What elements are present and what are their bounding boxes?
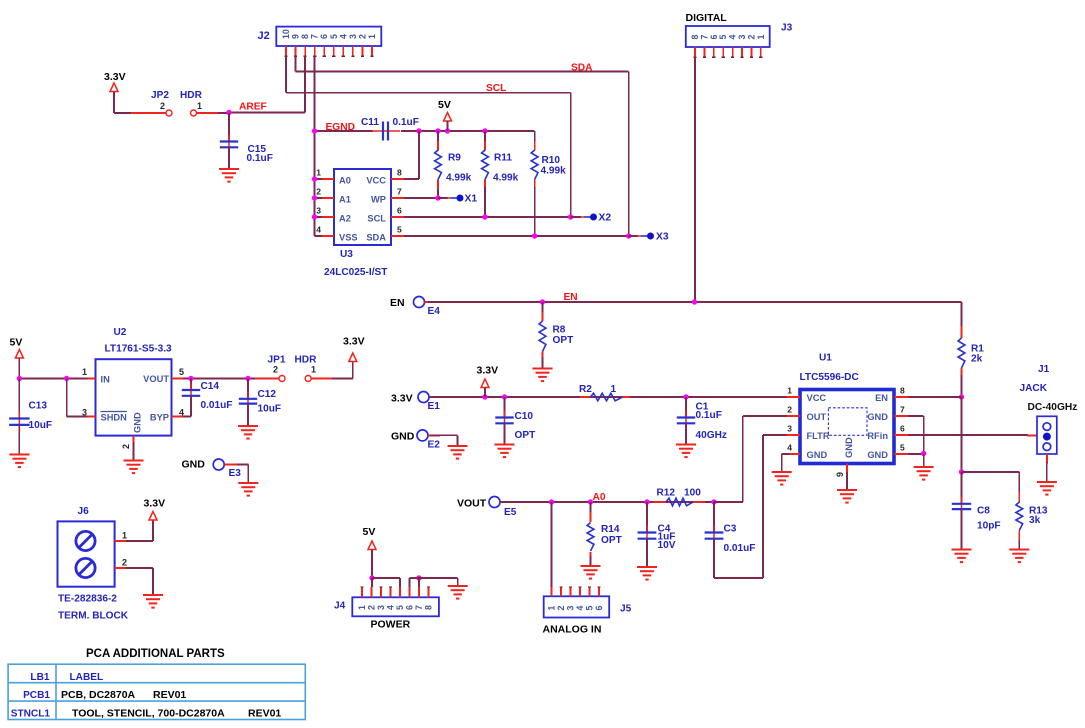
- svg-text:4: 4: [787, 443, 792, 453]
- svg-text:VCC: VCC: [807, 393, 827, 403]
- svg-text:10uF: 10uF: [29, 420, 53, 431]
- svg-text:10uF: 10uF: [258, 404, 282, 415]
- svg-text:U1: U1: [819, 353, 832, 364]
- svg-text:VOUT: VOUT: [457, 498, 487, 510]
- svg-text:8: 8: [424, 605, 434, 610]
- svg-text:C12: C12: [258, 389, 277, 400]
- svg-text:U2: U2: [114, 327, 127, 338]
- svg-text:A1: A1: [339, 195, 351, 205]
- svg-text:PCA ADDITIONAL PARTS: PCA ADDITIONAL PARTS: [86, 648, 225, 660]
- svg-text:BYP: BYP: [150, 413, 169, 423]
- svg-text:4: 4: [338, 34, 348, 39]
- svg-text:RFin: RFin: [867, 431, 888, 441]
- svg-text:3.3V: 3.3V: [144, 498, 166, 510]
- svg-text:J2: J2: [258, 30, 270, 42]
- svg-text:WP: WP: [371, 195, 386, 205]
- svg-text:DC-40GHz: DC-40GHz: [1028, 402, 1078, 413]
- svg-text:R8: R8: [553, 325, 566, 336]
- svg-text:J4: J4: [334, 601, 346, 612]
- svg-text:SDA: SDA: [571, 63, 593, 74]
- svg-text:TOOL, STENCIL, 700-DC2870A: TOOL, STENCIL, 700-DC2870A: [72, 708, 225, 720]
- svg-text:4.99k: 4.99k: [446, 173, 472, 184]
- svg-text:C11: C11: [361, 117, 379, 128]
- svg-text:5V: 5V: [10, 337, 23, 349]
- svg-text:E3: E3: [229, 468, 242, 479]
- svg-text:J3: J3: [781, 23, 793, 34]
- svg-text:6: 6: [405, 605, 415, 610]
- svg-text:JACK: JACK: [1020, 383, 1048, 394]
- svg-text:C14: C14: [201, 381, 220, 392]
- svg-text:1: 1: [357, 605, 367, 610]
- svg-text:E4: E4: [428, 306, 441, 317]
- svg-text:A0: A0: [339, 176, 351, 186]
- svg-text:C8: C8: [977, 506, 990, 517]
- svg-text:7: 7: [414, 605, 424, 610]
- svg-text:2: 2: [122, 558, 127, 568]
- svg-text:U3: U3: [340, 249, 353, 260]
- svg-text:6: 6: [319, 34, 329, 39]
- svg-text:0.01uF: 0.01uF: [724, 543, 756, 554]
- svg-text:3k: 3k: [1029, 515, 1041, 526]
- svg-text:5: 5: [397, 225, 402, 235]
- svg-text:OUT: OUT: [807, 412, 827, 422]
- svg-text:JP2: JP2: [151, 90, 169, 101]
- svg-text:2: 2: [121, 444, 131, 449]
- svg-text:1: 1: [82, 367, 87, 377]
- svg-text:LT1761-S5-3.3: LT1761-S5-3.3: [105, 344, 173, 355]
- svg-text:R11: R11: [494, 153, 512, 164]
- svg-text:R14: R14: [601, 524, 620, 535]
- svg-text:GND: GND: [867, 450, 888, 460]
- svg-text:7: 7: [397, 187, 402, 197]
- svg-text:IN: IN: [101, 375, 111, 385]
- svg-text:3: 3: [316, 206, 321, 216]
- svg-text:DIGITAL: DIGITAL: [686, 12, 728, 24]
- svg-text:4: 4: [575, 606, 585, 611]
- svg-text:TE-282836-2: TE-282836-2: [58, 594, 117, 605]
- svg-text:EN: EN: [875, 393, 888, 403]
- svg-text:OPT: OPT: [601, 535, 623, 546]
- svg-text:6: 6: [900, 424, 905, 434]
- svg-text:C13: C13: [29, 401, 48, 412]
- svg-text:2: 2: [787, 405, 792, 415]
- svg-text:J1: J1: [1038, 364, 1050, 375]
- svg-text:SDA: SDA: [366, 233, 386, 243]
- svg-text:4.99k: 4.99k: [493, 173, 519, 184]
- svg-text:100: 100: [684, 488, 701, 499]
- svg-text:GND: GND: [182, 459, 206, 471]
- svg-text:J6: J6: [78, 506, 90, 517]
- svg-text:8: 8: [300, 34, 310, 39]
- svg-text:6: 6: [397, 206, 402, 216]
- svg-text:REV01: REV01: [153, 689, 186, 701]
- svg-text:40GHz: 40GHz: [696, 430, 727, 441]
- svg-text:X3: X3: [656, 232, 669, 243]
- svg-text:VCC: VCC: [366, 176, 386, 186]
- svg-text:4.99k: 4.99k: [541, 166, 567, 177]
- svg-text:SCL: SCL: [367, 214, 386, 224]
- svg-text:3: 3: [376, 605, 386, 610]
- svg-text:C10: C10: [515, 411, 534, 422]
- svg-text:VSS: VSS: [339, 233, 358, 243]
- svg-text:E5: E5: [504, 507, 517, 518]
- svg-text:GND: GND: [807, 450, 828, 460]
- svg-text:3.3V: 3.3V: [391, 393, 413, 405]
- svg-text:A0: A0: [593, 492, 606, 503]
- svg-text:R12: R12: [657, 488, 676, 499]
- svg-text:10pF: 10pF: [977, 521, 1001, 532]
- svg-text:10: 10: [281, 29, 291, 39]
- svg-text:LABEL: LABEL: [70, 672, 104, 683]
- svg-text:R2: R2: [579, 384, 592, 395]
- svg-text:OPT: OPT: [553, 335, 575, 346]
- svg-text:3: 3: [566, 606, 576, 611]
- svg-text:10V: 10V: [658, 540, 676, 551]
- svg-text:R9: R9: [448, 153, 461, 164]
- svg-text:9: 9: [835, 472, 845, 477]
- svg-text:8: 8: [397, 168, 402, 178]
- svg-text:FLTR: FLTR: [807, 431, 830, 441]
- svg-text:9: 9: [291, 34, 301, 39]
- svg-text:1: 1: [367, 34, 377, 39]
- svg-text:R10: R10: [542, 155, 561, 166]
- svg-text:3.3V: 3.3V: [104, 71, 126, 83]
- svg-text:3: 3: [787, 424, 792, 434]
- svg-text:6: 6: [594, 606, 604, 611]
- svg-text:C3: C3: [724, 524, 737, 535]
- svg-text:J5: J5: [620, 604, 632, 615]
- svg-text:GND: GND: [133, 412, 143, 433]
- svg-text:STNCL1: STNCL1: [11, 709, 51, 720]
- svg-text:SHDN: SHDN: [101, 413, 128, 423]
- svg-text:X2: X2: [599, 213, 612, 224]
- svg-text:5V: 5V: [438, 99, 451, 111]
- svg-text:1: 1: [311, 365, 316, 375]
- svg-text:2: 2: [273, 365, 278, 375]
- svg-text:VOUT: VOUT: [143, 374, 169, 384]
- svg-text:ANALOG IN: ANALOG IN: [543, 624, 602, 636]
- svg-text:AREF: AREF: [239, 102, 267, 113]
- svg-text:E2: E2: [428, 440, 441, 451]
- svg-text:4: 4: [316, 225, 321, 235]
- svg-text:EN: EN: [390, 297, 405, 309]
- svg-text:SCL: SCL: [486, 83, 506, 94]
- svg-text:A2: A2: [339, 214, 351, 224]
- svg-text:EN: EN: [564, 292, 578, 303]
- svg-text:2: 2: [316, 187, 321, 197]
- svg-text:PCB, DC2870A: PCB, DC2870A: [61, 689, 136, 701]
- svg-text:7: 7: [310, 34, 320, 39]
- svg-text:GND: GND: [391, 431, 415, 443]
- svg-text:GND: GND: [844, 437, 854, 458]
- svg-text:0.1uF: 0.1uF: [393, 117, 419, 128]
- svg-text:1: 1: [547, 606, 557, 611]
- svg-text:1: 1: [756, 35, 766, 40]
- svg-text:2: 2: [160, 101, 165, 111]
- svg-text:5: 5: [179, 367, 184, 377]
- svg-text:LTC5596-DC: LTC5596-DC: [800, 372, 860, 383]
- svg-text:LB1: LB1: [30, 672, 49, 683]
- svg-text:3.3V: 3.3V: [477, 365, 499, 377]
- svg-text:5: 5: [329, 34, 339, 39]
- svg-text:1: 1: [197, 101, 202, 111]
- svg-text:24LC025-I/ST: 24LC025-I/ST: [324, 267, 388, 278]
- svg-text:4: 4: [386, 605, 396, 610]
- svg-text:3.3V: 3.3V: [343, 336, 365, 348]
- svg-text:TERM. BLOCK: TERM. BLOCK: [58, 611, 129, 622]
- svg-text:0.1uF: 0.1uF: [696, 410, 722, 421]
- svg-text:REV01: REV01: [248, 708, 281, 720]
- svg-text:1: 1: [122, 531, 127, 541]
- svg-text:3: 3: [348, 34, 358, 39]
- svg-text:E1: E1: [428, 401, 441, 412]
- svg-text:2: 2: [556, 606, 566, 611]
- svg-text:5V: 5V: [363, 526, 376, 538]
- svg-text:HDR: HDR: [180, 90, 203, 101]
- svg-text:7: 7: [900, 405, 905, 415]
- svg-text:5: 5: [585, 606, 595, 611]
- svg-text:5: 5: [395, 605, 405, 610]
- svg-text:PCB1: PCB1: [23, 690, 50, 701]
- svg-text:1: 1: [787, 386, 792, 396]
- svg-text:0.01uF: 0.01uF: [201, 400, 233, 411]
- svg-text:2: 2: [367, 605, 377, 610]
- svg-text:8: 8: [900, 386, 905, 396]
- svg-text:POWER: POWER: [371, 619, 411, 631]
- svg-text:X1: X1: [465, 194, 478, 205]
- svg-text:2: 2: [357, 34, 367, 39]
- svg-text:5: 5: [900, 443, 905, 453]
- svg-text:2k: 2k: [971, 354, 983, 365]
- svg-text:1: 1: [316, 168, 321, 178]
- svg-text:OPT: OPT: [515, 430, 537, 441]
- svg-text:1: 1: [611, 384, 617, 395]
- svg-text:0.1uF: 0.1uF: [247, 153, 273, 164]
- svg-text:GND: GND: [867, 412, 888, 422]
